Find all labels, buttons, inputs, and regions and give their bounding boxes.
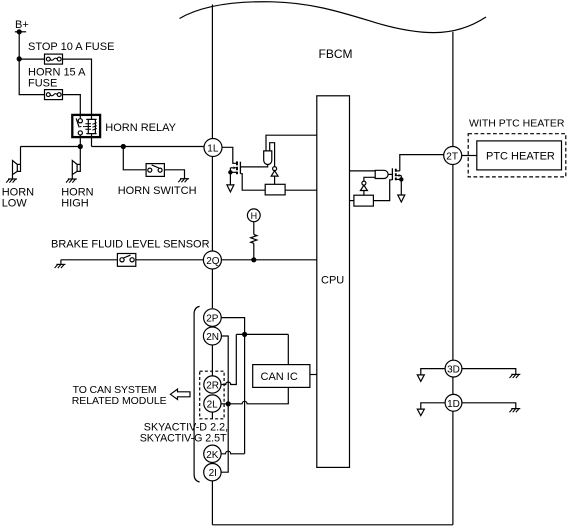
wire AND2 input B hook [364,177,375,181]
wire AND1 output to gate [240,164,267,167]
wire Q2 drain to 2T [400,155,444,171]
fuse STOP 10A [45,54,63,64]
wire CAN IC to CPU [310,374,317,376]
relay mechanical link dashes [80,126,86,128]
wire 1D right to ground [462,403,516,409]
wire to horn low [20,147,22,165]
svg-text:FBCM: FBCM [319,47,353,61]
horn low speaker [13,161,21,179]
wire H down [253,222,255,235]
wire AND2 output to gate [388,173,392,175]
ground arrow 1D [417,409,424,416]
ground horn switch [178,179,189,183]
horn relay box [72,115,100,137]
svg-text:BRAKE FLUID LEVEL SENSOR: BRAKE FLUID LEVEL SENSOR [51,239,210,251]
svg-text:HORN RELAY: HORN RELAY [105,122,176,134]
dashed SKYACTIV box [200,371,224,419]
resistor R3 (box) [354,195,374,206]
indicator H (horn telltale) [247,209,260,222]
CAN IC box [253,365,310,388]
wire CPU to R3 [350,200,354,202]
resistor R2 (zigzag) [251,235,257,244]
node Q1 source [228,170,232,174]
wire to HORN fuse [19,59,44,95]
svg-text:2Q: 2Q [206,256,220,267]
ground 3D [510,374,521,378]
svg-text:H: H [251,211,258,221]
PTC HEATER box [477,141,562,170]
wire relay coil to 1L [92,146,205,148]
svg-text:2T: 2T [446,152,458,163]
svg-text:FUSE: FUSE [28,78,57,90]
wire 3D left to arrow [421,369,445,375]
node Q2 source [399,177,403,181]
wire CPU to AND1 input A [266,135,317,151]
wire ground to sensor switch [61,260,118,265]
wire 1D left to arrow [421,403,445,409]
svg-text:2P: 2P [206,314,219,325]
wire CAN-H horizontal to CAN IC [236,334,288,364]
pin 2L [204,395,221,412]
ground brake sensor [55,264,66,268]
ground horn high [66,179,77,183]
node H junction [251,257,256,262]
wire 2L to CAN IC (hop over CAN-H) [221,387,288,403]
wire to STOP fuse [19,58,44,60]
svg-text:WITH PTC HEATER: WITH PTC HEATER [469,118,565,130]
svg-text:CAN IC: CAN IC [261,371,298,383]
FBCM left edge [211,5,213,525]
ground arrow 3D [417,375,424,382]
node horn switch junction [121,144,126,149]
svg-text:2N: 2N [206,332,219,343]
open arrow to CAN system [170,389,190,399]
svg-text:SKYACTIV-G 2.5T: SKYACTIV-G 2.5T [140,433,227,445]
wire 2Q to CPU [221,259,316,261]
svg-text:HIGH: HIGH [61,198,89,210]
svg-text:HORN SWITCH: HORN SWITCH [118,185,197,197]
transistor Q2 (high-side MOSFET) [392,168,401,180]
wire CAN-H down to 2K (hop over at 2L handled on 2L wire) [221,334,244,453]
node horn junction [78,144,83,149]
wire Q1 bottom to R1 [240,174,265,191]
pin 1D [445,394,462,411]
ground 1D [510,409,521,413]
wire to horn high [79,147,81,165]
wire 2P to CAN-H [221,318,244,335]
relay switch contact [76,115,82,147]
wire R3 to Q2 bottom [373,180,392,201]
wire horn feed [21,146,81,148]
FBCM bottom edge [212,524,453,526]
wire B+ down [18,32,20,59]
ground horn low [6,179,17,183]
svg-text:2K: 2K [206,450,219,461]
node CAN-L junction [226,401,231,406]
inverter D2 (up-facing with bubble) [360,181,367,195]
ground arrow (open triangle) Q1 [227,185,234,192]
svg-text:2I: 2I [209,468,217,479]
horn high speaker [72,161,80,179]
svg-text:RELATED MODULE: RELATED MODULE [72,395,167,407]
connector bracket [194,306,200,482]
pin 2K [204,445,221,462]
wire STOP fuse to relay coil [63,59,92,115]
brake fluid level sensor switch [117,254,135,267]
wire 2R to CAN-H (hop over CAN-L) [221,334,236,384]
ground arrow (open triangle) Q2 [398,195,405,202]
wire CAN-L down to 2I [221,404,228,472]
FBCM right edge [452,32,454,525]
wire CPU to AND2 input A [350,170,376,172]
svg-text:B+: B+ [15,19,29,31]
svg-text:TO CAN SYSTEM: TO CAN SYSTEM [73,384,157,396]
pin 1L [204,139,222,157]
fuse HORN 15A [45,90,63,100]
wire sensor switch to 2Q [136,259,204,261]
and-gate U1 (down-facing) [264,151,272,165]
wire HORN fuse to relay switch [63,95,81,115]
inverter D1 (up-facing with bubble) [271,167,278,185]
wire horn switch to ground [164,170,184,179]
transistor Q1 (low-side MOSFET) [230,161,240,174]
svg-text:1D: 1D [447,399,460,410]
and-gate U2 (right-facing) [375,170,388,178]
pin 2R [204,376,221,393]
dashed option box [468,134,566,177]
svg-text:LOW: LOW [2,198,28,210]
svg-text:1L: 1L [207,144,219,155]
pin 2Q [203,251,221,269]
svg-text:2R: 2R [206,381,219,392]
node CAN-H junction [242,332,247,337]
pin 2P [204,309,222,327]
pin 2N [203,327,221,345]
wire R2 to 2Q net [253,243,255,259]
wire 2T to PTC heater [462,155,477,157]
pin 3D [445,360,462,377]
svg-text:STOP 10 A FUSE: STOP 10 A FUSE [28,41,114,53]
wire 2N to CAN-L [221,336,228,404]
node junction at fuses [17,56,22,61]
CPU box [317,96,350,468]
wire 1L to mosfet drain [222,147,237,163]
wire R1 to CPU [285,189,317,191]
pin 2T [444,147,462,165]
svg-text:CPU: CPU [321,275,344,287]
pin 2I [204,464,221,481]
wire Q2 source down [400,179,402,194]
svg-text:2L: 2L [207,400,219,411]
resistor R1 (box) [265,184,285,195]
FBCM torn-top wavy edge [180,2,487,33]
svg-text:PTC HEATER: PTC HEATER [486,150,555,162]
relay coil [85,115,97,147]
wire Q1 source down [229,172,231,184]
wire 3D right to ground [462,369,516,375]
B+ terminal [15,31,26,33]
wire to horn switch [123,147,146,170]
svg-text:3D: 3D [447,365,460,376]
wire AND1 input B hook [270,143,275,167]
horn switch [146,164,164,177]
